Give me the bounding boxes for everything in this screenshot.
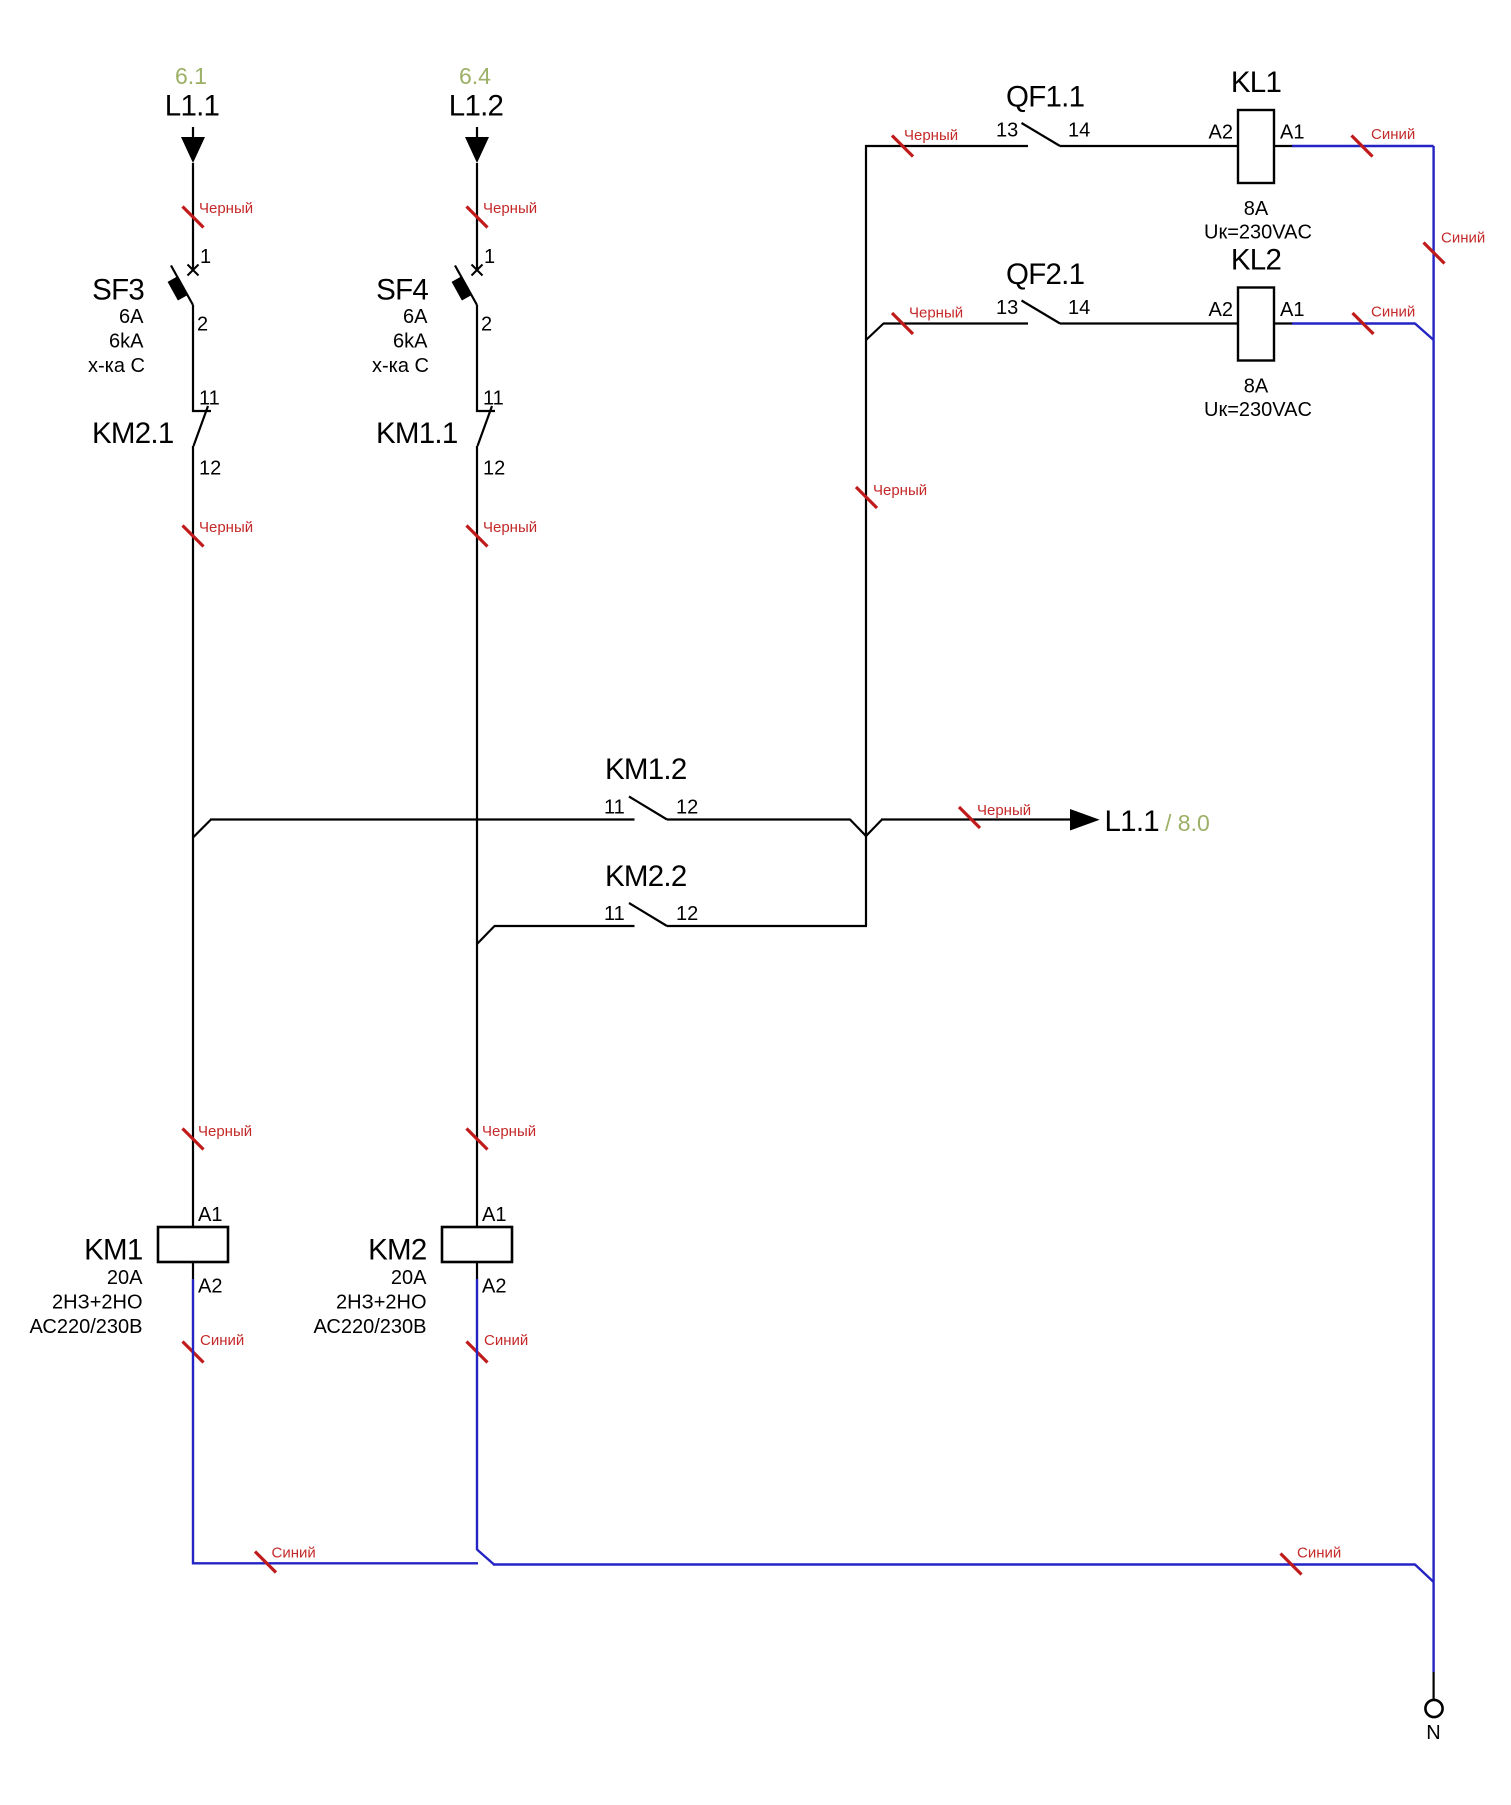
svg-text:2НЗ+2НО: 2НЗ+2НО — [52, 1292, 142, 1314]
wire KL2 A1 stub — [1274, 322, 1293, 324]
wire color mark Черный (row KL2) — [892, 313, 913, 334]
svg-text:6A: 6A — [119, 306, 144, 328]
NO contact KM1.2 arm — [629, 797, 667, 820]
svg-text:х-ка С: х-ка С — [88, 355, 145, 377]
svg-text:SF3: SF3 — [92, 274, 144, 307]
svg-text:A1: A1 — [482, 1204, 506, 1226]
wire blue KL2 jog to N drop — [1415, 324, 1434, 341]
wire jog down into junction — [850, 820, 866, 837]
NC contact KM1.1 arm — [478, 406, 493, 446]
svg-text:Синий: Синий — [484, 1332, 528, 1349]
wire blue right N drop vertical — [1432, 146, 1434, 1672]
wire bus jog to QF2.1 pin 13 — [883, 322, 1028, 324]
svg-text:/ 8.0: / 8.0 — [1165, 810, 1210, 836]
svg-text:Черный: Черный — [483, 200, 537, 217]
svg-text:A2: A2 — [482, 1276, 506, 1298]
svg-text:6.4: 6.4 — [459, 63, 491, 89]
relay coil KL1 — [1238, 110, 1274, 183]
svg-text:12: 12 — [199, 458, 221, 480]
svg-text:Синий: Синий — [200, 1332, 244, 1349]
svg-text:6kA: 6kA — [393, 331, 428, 353]
svg-text:Черный: Черный — [199, 519, 253, 536]
destination arrow L1.1 / 8.0 — [1070, 809, 1100, 831]
svg-text:Синий: Синий — [272, 1545, 316, 1562]
relay coil KL2 — [1238, 288, 1274, 361]
NO contact QF2.1 arm — [1022, 301, 1061, 324]
svg-text:Черный: Черный — [909, 305, 963, 322]
svg-text:12: 12 — [676, 797, 698, 819]
svg-text:Синий: Синий — [1371, 304, 1415, 321]
svg-text:A2: A2 — [1209, 122, 1233, 144]
wire color mark Черный (L1.1 out) — [959, 807, 980, 828]
wire color mark Черный (L1.1 mid) — [183, 526, 204, 547]
wire riser up to junction — [865, 835, 867, 926]
source arrow L1.1 — [192, 127, 194, 138]
svg-text:8A: 8A — [1244, 198, 1269, 220]
svg-text:KL2: KL2 — [1231, 244, 1281, 277]
wire color mark Синий (below KM2) — [467, 1342, 488, 1363]
node junction at control bus — [866, 820, 882, 837]
wire QF2.1 pin 14 to KL2 A2 — [1060, 322, 1238, 324]
wire QF1.1 pin 14 to KL1 A2 — [1060, 145, 1238, 147]
wire color mark Черный (above KM2) — [467, 1129, 488, 1150]
wire color mark Синий (row KL2) — [1353, 313, 1374, 334]
svg-text:A2: A2 — [1209, 299, 1233, 321]
breaker SF4 thermal element box — [452, 277, 472, 301]
wire L1.1 to SF3 pin 1 — [192, 163, 194, 269]
svg-text:14: 14 — [1068, 297, 1090, 319]
wire blue KM2 jog into N bus — [477, 1550, 494, 1565]
wire KM1.1 pin 12 to coil KM2 A1 — [476, 446, 478, 1228]
wire color mark Синий (row KL1) — [1352, 136, 1373, 157]
wire bus corner to QF1.1 pin 13 — [865, 145, 1028, 147]
NC contact KM2.1 arm — [194, 406, 209, 446]
contactor coil KM2 — [442, 1227, 512, 1262]
NC contact KM1.1 top bar — [476, 410, 495, 412]
svg-text:A1: A1 — [198, 1204, 222, 1226]
svg-text:Uк=230VAC: Uк=230VAC — [1204, 222, 1312, 244]
wire SF4 pin 2 to KM1.1 pin 11 — [476, 305, 478, 412]
svg-text:х-ка С: х-ка С — [372, 355, 429, 377]
svg-text:1: 1 — [200, 246, 211, 268]
wire color mark Черный (L1.2 mid) — [467, 526, 488, 547]
svg-text:8A: 8A — [1244, 376, 1269, 398]
svg-text:A1: A1 — [1280, 122, 1304, 144]
svg-text:13: 13 — [996, 297, 1018, 319]
svg-text:2: 2 — [481, 314, 492, 336]
wire blue bottom bus jog down to N drop — [1415, 1565, 1434, 1583]
svg-text:12: 12 — [483, 458, 505, 480]
wire color mark Черный (above KM1) — [183, 1129, 204, 1150]
wire blue bottom N bus — [493, 1563, 1416, 1565]
svg-text:АС220/230В: АС220/230В — [314, 1316, 427, 1338]
svg-text:A1: A1 — [1280, 299, 1304, 321]
svg-text:2: 2 — [197, 314, 208, 336]
wire color mark Черный (row KL1) — [892, 136, 913, 157]
svg-text:A2: A2 — [198, 1276, 222, 1298]
svg-text:12: 12 — [676, 903, 698, 925]
breaker SF3 thermal element box — [168, 277, 188, 301]
svg-text:11: 11 — [483, 388, 504, 410]
wire bus jog to QF2.1 row — [866, 324, 884, 341]
wire KM1.2 pin 12 to junction — [667, 818, 851, 820]
wire color mark Черный (L1.1 top) — [183, 207, 204, 228]
svg-text:KM1.2: KM1.2 — [605, 753, 687, 786]
svg-text:Синий: Синий — [1371, 126, 1415, 143]
svg-text:QF2.1: QF2.1 — [1006, 258, 1084, 291]
wire L1.1 branch jog to KM1.2 row — [193, 820, 211, 838]
svg-text:KM2.1: KM2.1 — [92, 417, 174, 450]
wire KM2.1 pin 12 to coil KM1 A1 — [192, 446, 194, 1228]
wire black control bus vertical — [865, 145, 867, 837]
svg-text:13: 13 — [996, 120, 1018, 142]
svg-text:Uк=230VAC: Uк=230VAC — [1204, 399, 1312, 421]
wire KL1 A1 stub — [1274, 145, 1293, 147]
svg-text:Синий: Синий — [1297, 1545, 1341, 1562]
wire to KM1.2 pin 11 — [210, 818, 635, 820]
svg-text:14: 14 — [1068, 120, 1090, 142]
svg-text:KM2: KM2 — [368, 1234, 426, 1267]
wire junction to L1.1 out arrow — [881, 818, 1070, 820]
svg-text:Черный: Черный — [977, 802, 1031, 819]
svg-text:6A: 6A — [403, 306, 428, 328]
svg-text:KM1: KM1 — [84, 1234, 142, 1267]
wire SF3 pin 2 to KM2.1 pin 11 — [192, 305, 194, 412]
wire blue KM1 A2 down to bottom N bus, corner — [193, 1279, 478, 1563]
NO contact KM2.2 arm — [629, 903, 667, 926]
breaker SF4 contact cross — [472, 265, 483, 276]
svg-text:Черный: Черный — [904, 127, 958, 144]
svg-text:1: 1 — [484, 246, 495, 268]
svg-text:20A: 20A — [391, 1267, 427, 1289]
svg-text:L1.2: L1.2 — [449, 90, 503, 123]
svg-text:11: 11 — [199, 388, 220, 410]
svg-text:11: 11 — [604, 903, 625, 925]
wire blue KM2 A2 down — [476, 1279, 478, 1550]
wire color mark Синий (right drop) — [1424, 243, 1445, 264]
wire color mark Синий (below KM1) — [183, 1342, 204, 1363]
svg-text:АС220/230В: АС220/230В — [30, 1316, 143, 1338]
NC contact KM2.1 top bar — [192, 410, 211, 412]
breaker SF4 switch arm — [455, 266, 477, 306]
svg-text:11: 11 — [604, 797, 625, 819]
svg-text:6.1: 6.1 — [175, 63, 207, 89]
svg-text:N: N — [1426, 1722, 1440, 1744]
breaker SF3 switch arm — [171, 266, 193, 306]
svg-text:20A: 20A — [107, 1267, 143, 1289]
wire to KM2.2 pin 11 — [494, 925, 635, 927]
wire blue KL1 A1 to N drop — [1292, 145, 1434, 147]
svg-text:6kA: 6kA — [109, 331, 144, 353]
svg-text:KM1.1: KM1.1 — [376, 417, 458, 450]
svg-text:Черный: Черный — [873, 482, 927, 499]
wire KM2.2 pin 12 to riser — [667, 925, 867, 927]
wire color mark Синий (bottom bus right) — [1281, 1554, 1302, 1575]
svg-text:KM2.2: KM2.2 — [605, 860, 687, 893]
wire black N terminal lead — [1432, 1672, 1434, 1700]
svg-text:SF4: SF4 — [376, 274, 428, 307]
svg-text:2НЗ+2НО: 2НЗ+2НО — [336, 1292, 426, 1314]
wire blue KL2 A1 toward N drop — [1292, 322, 1416, 324]
wire color mark Синий (bottom bus left) — [255, 1552, 276, 1573]
terminal N circle — [1425, 1700, 1442, 1717]
wire color mark Черный (L1.2 top) — [467, 207, 488, 228]
wire L1.2 to SF4 pin 1 — [476, 163, 478, 269]
svg-text:QF1.1: QF1.1 — [1006, 81, 1084, 114]
source arrow L1.2 — [476, 127, 478, 138]
svg-text:Черный: Черный — [482, 1123, 536, 1140]
svg-text:L1.1: L1.1 — [165, 90, 219, 123]
svg-text:Черный: Черный — [483, 519, 537, 536]
svg-text:Черный: Черный — [199, 200, 253, 217]
contactor coil KM1 — [158, 1227, 228, 1262]
wire KM2 A2 stub — [476, 1262, 478, 1279]
svg-text:KL1: KL1 — [1231, 66, 1281, 99]
svg-text:Синий: Синий — [1441, 230, 1485, 247]
svg-text:L1.1: L1.1 — [1105, 805, 1159, 838]
wire KM1 A2 stub — [192, 1262, 194, 1279]
wire L1.2 branch jog to KM2.2 row — [477, 926, 495, 944]
wire color mark Черный (control bus) — [856, 487, 877, 508]
NO contact QF1.1 arm — [1022, 123, 1061, 146]
svg-text:Черный: Черный — [198, 1123, 252, 1140]
breaker SF3 contact cross — [188, 265, 199, 276]
